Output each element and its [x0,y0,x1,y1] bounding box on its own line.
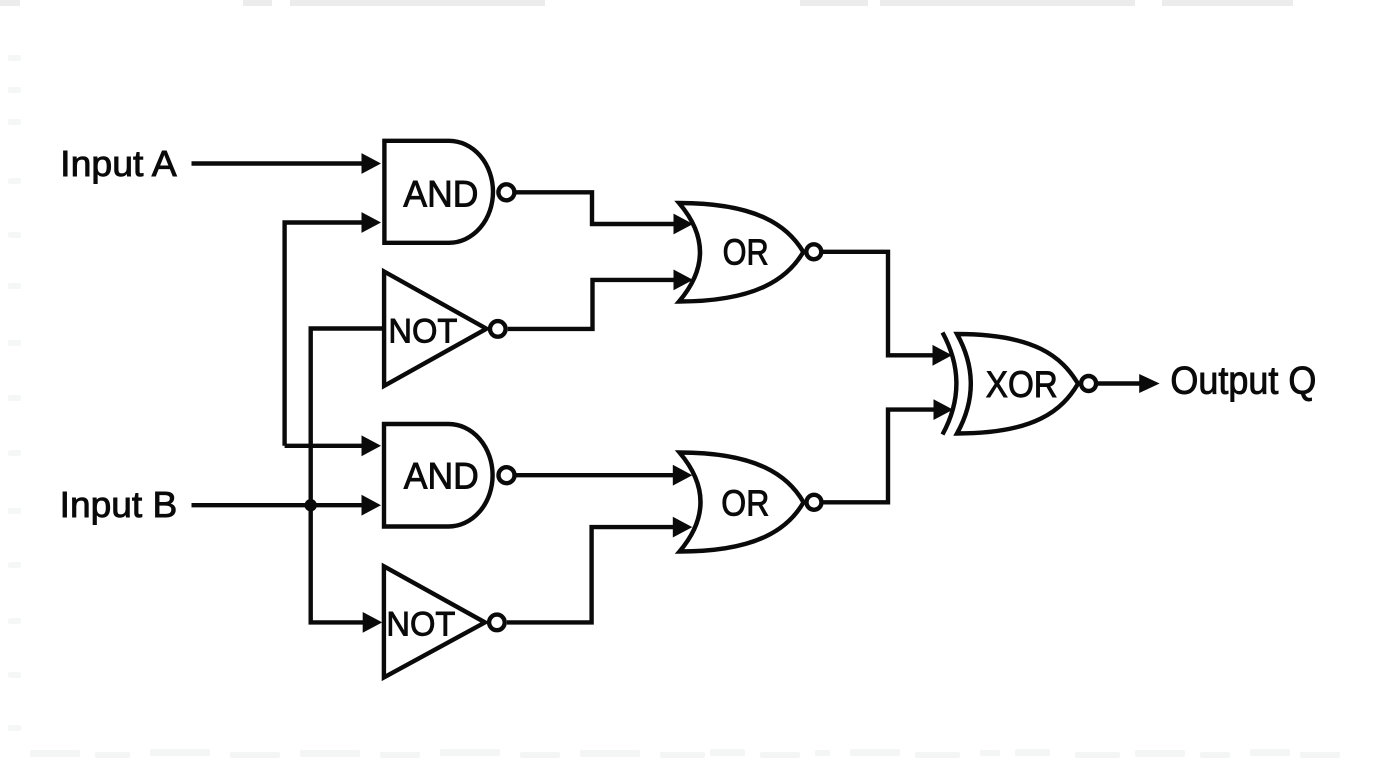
gate AND1 body [384,141,493,243]
svg-text:OR: OR [723,232,769,273]
arrowhead OR2 lower input [673,517,693,538]
wire NOT1 output to OR1 lower input [508,280,675,329]
gate NOT2 body [384,566,485,677]
ghost bar top-left [0,0,20,6]
wire NOT1 input and bus x=310 down to NOT2 input [311,329,384,623]
arrowhead XOR upper input [933,345,953,366]
bubble NOT1 [490,321,506,337]
gate XOR body [957,334,1078,434]
bubble OR2 [807,495,822,510]
wire bus from AND1 second input down to AND2 first input [285,223,363,446]
wire NOT2 output to OR2 lower input [507,527,674,622]
svg-text:XOR: XOR [986,363,1058,405]
arrowhead AND2 upper input [362,435,382,456]
gate NOT1 body [384,272,486,386]
gate OR1 body [679,203,803,302]
gate AND2 body [384,424,493,527]
svg-text:OR: OR [721,482,769,523]
svg-text:AND: AND [403,172,478,214]
wire XOR output to label [1098,381,1141,385]
arrowhead Input A [362,153,382,174]
arrowhead OR1 lower input [674,270,694,291]
bubble AND2 [499,467,515,483]
bubble OR1 [806,244,821,259]
junction dot Input B [305,499,317,511]
svg-text:Input B: Input B [60,484,178,525]
ghost bar top 2 [290,0,545,6]
wire AND2 output to OR2 upper input [516,473,674,477]
svg-text:AND: AND [404,454,479,496]
arrowhead output Q [1139,374,1159,393]
wire Input A to AND1 [192,161,364,165]
svg-text:Input A: Input A [60,143,177,184]
svg-text:Output Q: Output Q [1170,360,1316,403]
ghost bar top 4 [880,0,1135,6]
gate OR2 body [680,453,804,552]
arrowhead NOT2 input [363,612,383,633]
arrowhead Input B [362,495,382,516]
bubble AND1 [498,184,514,200]
wire OR1 output to XOR upper input [823,252,934,355]
bubble XOR [1081,376,1096,391]
ghost bottom watermark row [30,749,1340,758]
ghost bar top 3 [800,0,868,6]
svg-text:NOT: NOT [388,313,457,351]
ghost bar top 5 [1162,0,1293,6]
wire OR2 output to XOR lower input [824,410,936,503]
bubble NOT2 [489,615,505,631]
arrowhead XOR lower input [934,399,954,420]
arrowhead OR2 upper input [673,465,693,486]
arrowhead AND1 second input [362,212,382,233]
ghost left-edge ticks [8,55,21,731]
wire AND2 upper input [285,444,363,448]
wire Input B [192,503,364,507]
ghost bar top 1 [243,0,272,6]
arrowhead OR1 upper input [674,214,694,235]
XOR leading arc [943,333,957,435]
wire AND1 output to OR1 upper input [515,192,675,224]
svg-text:NOT: NOT [386,605,455,643]
